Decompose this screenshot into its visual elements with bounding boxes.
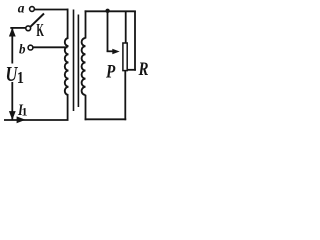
- current arrow I1 head: [17, 116, 26, 123]
- switch K blade: [30, 14, 44, 27]
- rheostat R body: [123, 43, 127, 71]
- wire: rheostat top feed: [125, 11, 127, 43]
- wire: connector right vertical to rheostat bottom: [127, 69, 136, 71]
- wire: switch feed from U1 rail to pivot: [10, 27, 26, 29]
- voltage arrow U1 up arrowhead: [9, 28, 16, 37]
- wire: secondary top vertical: [85, 10, 87, 38]
- wire: terminal b to primary winding tap: [33, 46, 67, 48]
- wiper arrow head P: [112, 49, 119, 55]
- wire: U1 rail upper segment: [11, 28, 13, 64]
- wire: top-right from secondary to right corner: [85, 10, 136, 12]
- svg-text:a: a: [18, 0, 25, 15]
- transformer primary winding: [65, 38, 69, 95]
- wire: bottom-left return: [4, 119, 69, 121]
- voltage arrow U1 down arrowhead: [9, 111, 16, 120]
- svg-text:1: 1: [17, 69, 24, 87]
- wire: primary top vertical drop: [67, 9, 69, 39]
- wire: primary bottom vertical: [67, 95, 69, 121]
- terminal a circle: [30, 7, 35, 12]
- terminal b circle: [28, 45, 33, 50]
- wire: right side vertical to rheostat lower end: [134, 11, 136, 70]
- wire: U1 rail lower segment: [11, 82, 13, 120]
- wire: secondary bottom vertical: [85, 95, 87, 120]
- wire: bottom-right return: [85, 118, 127, 120]
- transformer secondary winding: [82, 38, 86, 95]
- svg-text:R: R: [138, 58, 149, 79]
- wire: rheostat bottom drop: [124, 70, 126, 120]
- switch pivot circle: [26, 26, 31, 31]
- wire: wiper branch horizontal: [107, 50, 115, 52]
- wire: wiper branch vertical from junction: [107, 11, 109, 52]
- svg-text:1: 1: [22, 105, 28, 119]
- svg-text:P: P: [105, 61, 116, 82]
- transformer core line right: [77, 15, 79, 108]
- transformer core line left: [73, 10, 75, 112]
- wire: top-left from terminal a to transformer primary top: [35, 9, 69, 11]
- svg-text:K: K: [36, 21, 44, 41]
- svg-text:b: b: [19, 41, 26, 57]
- junction node dot on top wire: [105, 9, 109, 13]
